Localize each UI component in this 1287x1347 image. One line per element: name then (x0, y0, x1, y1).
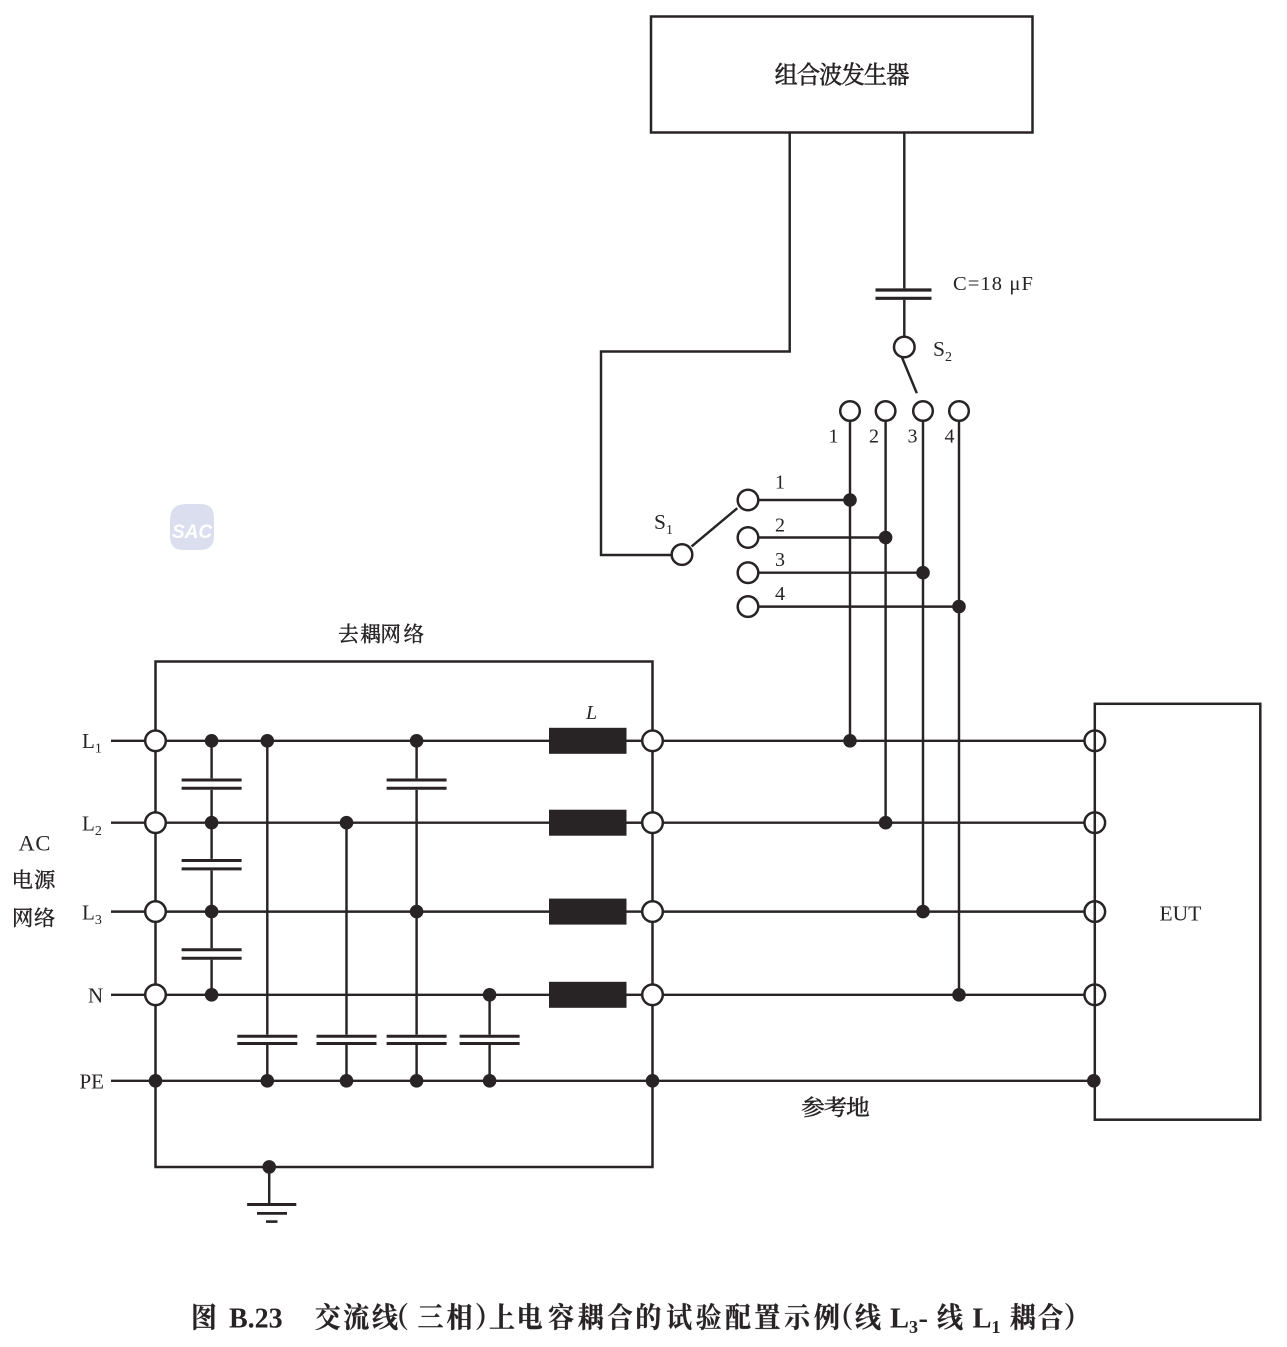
svg-text:3: 3 (908, 426, 918, 448)
wire L1/L3 to PE coupling branch (415, 741, 417, 1081)
combination wave generator box (651, 17, 1033, 133)
junction bus 3 (916, 566, 930, 580)
wire L2 to PE capacitor branch (345, 823, 347, 1081)
junction bus 4 to N (952, 988, 966, 1002)
terminal L2 decoupling input (145, 812, 166, 833)
junction L1 chain (205, 734, 219, 748)
junction L1 coupling (410, 734, 424, 748)
junction PE branch N (483, 1074, 497, 1088)
junction PE branch L1 (261, 1074, 275, 1088)
svg-text:C=18 μF: C=18 μF (953, 273, 1034, 295)
EUT box (1095, 704, 1261, 1120)
svg-text:4: 4 (945, 426, 955, 448)
wire L1 inside decoupling network (166, 740, 549, 742)
junction bus 2 to L2 (879, 816, 893, 830)
terminal N at EUT (1085, 985, 1106, 1006)
wire line-to-line capacitor chain (210, 741, 212, 995)
capacitor L1-L2 (182, 779, 242, 782)
wire terminal 2 down to line (884, 421, 886, 823)
wire L3 inductor to output terminal (627, 910, 643, 912)
decoupling network box (156, 662, 653, 1168)
wire generator right output to capacitor C (903, 133, 905, 289)
wire N stub from AC source (111, 994, 145, 996)
wire S1 contact 4 to bus 4 (758, 605, 959, 607)
S1 contact 2 (738, 527, 759, 548)
label 电源 (14, 870, 32, 889)
svg-text:PE: PE (80, 1069, 105, 1093)
svg-text:SAC: SAC (172, 522, 212, 543)
wire S1 contact 1 to bus 1 (758, 499, 850, 501)
svg-text:L: L (585, 702, 597, 724)
junction PE at decoupling output (646, 1074, 660, 1088)
wire L1 stub from AC source (111, 740, 145, 742)
wire ground stem (268, 1167, 270, 1203)
capacitor N-PE (460, 1035, 520, 1038)
junction L1 branch (261, 734, 275, 748)
terminal 2 (top) (876, 401, 896, 421)
terminal L3 decoupling input (145, 901, 166, 922)
svg-text:AC: AC (19, 831, 51, 856)
wire capacitor to S2 (903, 300, 905, 337)
terminal L2 at EUT (1085, 812, 1106, 833)
wire N inside decoupling network (166, 994, 549, 996)
caption CJK part2 (315, 1303, 340, 1330)
junction bus 3 to L3 (916, 905, 930, 919)
wire N decoupling output to EUT (663, 994, 1085, 996)
junction PE branch L3 (410, 1074, 424, 1088)
terminal L2 decoupling output (642, 812, 663, 833)
svg-text:2: 2 (869, 426, 879, 448)
wire L2 decoupling output to EUT (663, 821, 1085, 823)
svg-text:2: 2 (775, 515, 785, 537)
terminal N decoupling input (145, 985, 166, 1006)
junction PE branch L2 (340, 1074, 354, 1088)
inductor L1 (decoupling) (549, 728, 627, 754)
wire N to PE capacitor branch (488, 995, 490, 1081)
junction L2 branch (340, 816, 354, 830)
label 参考地 (reference ground) (802, 1096, 824, 1117)
junction bus 2 (879, 531, 893, 545)
switch S1 arm (692, 508, 738, 546)
S1 contact 4 (738, 596, 759, 617)
wire PE from AC source to EUT (111, 1080, 1095, 1082)
capacitor C plates (876, 288, 932, 291)
wire terminal 3 down to line (922, 421, 924, 912)
wire L2 inside decoupling network (166, 821, 549, 823)
S1 contact 1 (738, 490, 759, 511)
capacitor L2-PE (317, 1035, 377, 1038)
wire L2 inductor to output terminal (627, 821, 643, 823)
junction L3 chain (205, 905, 219, 919)
svg-text:EUT: EUT (1160, 902, 1202, 926)
caption CJK part1 (194, 1303, 216, 1330)
svg-text:N: N (88, 983, 103, 1007)
svg-text:4: 4 (775, 583, 785, 605)
inductor L2 (decoupling) (549, 810, 627, 836)
wire generator left output to S1 (601, 133, 790, 556)
svg-text:-: - (919, 1304, 929, 1335)
junction bus 1 (843, 493, 857, 507)
terminal 3 (top) (913, 401, 933, 421)
junction bus 1 to L1 (843, 734, 857, 748)
capacitor L3-N (182, 948, 242, 951)
junction bus 4 (952, 600, 966, 614)
terminal 4 (top) (949, 401, 969, 421)
svg-text:3: 3 (775, 549, 785, 571)
wire terminal 4 down to line (958, 421, 960, 995)
junction N branch (483, 988, 497, 1002)
svg-text:1: 1 (775, 472, 785, 494)
caption figure number 图 (194, 1303, 216, 1330)
wire L3 stub from AC source (111, 910, 145, 912)
wire L2 stub from AC source (111, 821, 145, 823)
junction L2 chain (205, 816, 219, 830)
wire L1 decoupling output to EUT (663, 740, 1085, 742)
capacitor L1-PE (237, 1035, 297, 1038)
switch S2 pole (894, 337, 915, 358)
label 网络 (14, 908, 32, 927)
terminal L3 decoupling output (642, 901, 663, 922)
wire S1 contact 3 to bus 3 (758, 571, 923, 573)
switch S2 arm (902, 357, 917, 393)
svg-text:1: 1 (829, 426, 839, 448)
terminal L1 decoupling output (642, 731, 663, 752)
caption CJK part3 (938, 1303, 963, 1330)
junction N chain (205, 988, 219, 1002)
switch S1 pole (672, 544, 693, 565)
junction PE at EUT (1087, 1074, 1101, 1088)
ground symbol (247, 1203, 296, 1206)
S1 contact 3 (738, 562, 759, 583)
label 组合波发生器 (776, 63, 798, 84)
caption text part3 (938, 1303, 1074, 1330)
wire L1 to PE capacitor branch (266, 741, 268, 1081)
capacitor L3-PE (387, 1035, 447, 1038)
wire terminal 1 down to line (849, 421, 851, 741)
wire L3 decoupling output to EUT (663, 910, 1085, 912)
terminal L1 at EUT (1085, 731, 1106, 752)
label 去耦网络 (339, 624, 358, 644)
wire N inductor to output terminal (627, 994, 643, 996)
inductor N (decoupling) (549, 982, 627, 1008)
junction PE at decoupling input (149, 1074, 163, 1088)
capacitor L2-L3 (182, 859, 242, 862)
caption text part2 (315, 1303, 880, 1330)
coupling capacitor L1-L3 branch (387, 779, 447, 782)
SAC watermark logo (170, 504, 214, 550)
wire L1 inductor to output terminal (627, 740, 643, 742)
terminal L3 at EUT (1085, 901, 1106, 922)
wire L3 inside decoupling network (166, 910, 549, 912)
wire S1 contact 2 to bus 2 (758, 536, 885, 538)
inductor L3 (decoupling) (549, 899, 627, 925)
terminal N decoupling output (642, 985, 663, 1006)
junction ground on decoupling box (262, 1160, 276, 1174)
junction L3 coupling (410, 905, 424, 919)
svg-text:B.23: B.23 (229, 1304, 283, 1335)
terminal 1 (top) (840, 401, 860, 421)
terminal L1 decoupling input (145, 731, 166, 752)
